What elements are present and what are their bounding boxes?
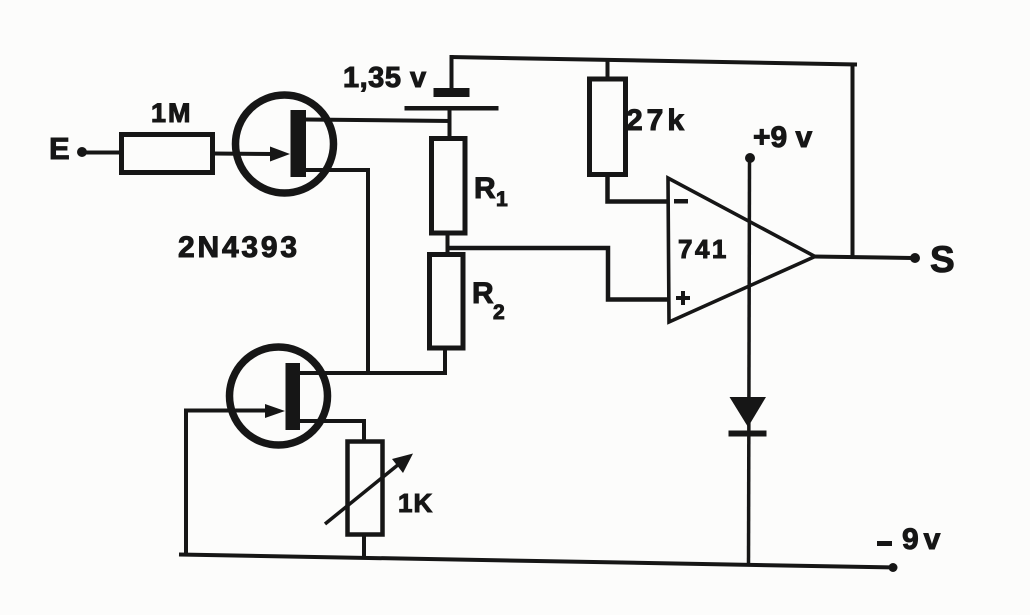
bottom rail wire (-9V) (179, 555, 894, 568)
svg-text:1M: 1M (151, 98, 193, 128)
node S terminal dot (910, 253, 920, 263)
svg-text:1K: 1K (398, 488, 433, 518)
svg-text:741: 741 (678, 234, 729, 264)
resistor R1 (432, 139, 466, 234)
wire 1K to bottom rail (362, 534, 366, 559)
resistor 1M (122, 135, 213, 173)
svg-text:9v: 9v (902, 523, 945, 556)
svg-text:2: 2 (493, 301, 505, 324)
variable resistor 1K body (348, 442, 383, 535)
wire R2 to Q2 drain (300, 347, 445, 373)
svg-text:R: R (472, 277, 494, 310)
bottom rail end dot (889, 563, 898, 572)
op-amp inverting input marker (674, 199, 688, 204)
wire battery minus to R1 (448, 110, 452, 140)
wire +9V through op-amp to diode and bottom rail (749, 160, 750, 566)
op-amp U1 741 body (668, 178, 815, 322)
resistor R2 (430, 255, 464, 349)
wire Q2 source to 1K (300, 421, 364, 443)
svg-text:2N4393: 2N4393 (178, 231, 300, 264)
node E terminal dot (77, 147, 87, 157)
feedback wire output to top rail (851, 63, 855, 258)
transistor Q1 2N4393 (236, 95, 334, 193)
svg-text:+9 v: +9 v (753, 121, 813, 154)
wire Q1 source down to Q2 drain (306, 170, 368, 373)
svg-text:S: S (930, 239, 955, 280)
top rail wire (450, 57, 857, 65)
+9V supply node dot (745, 153, 755, 163)
svg-text:1: 1 (496, 188, 508, 211)
op-amp non-inverting input marker (676, 296, 690, 300)
wire E to 1M (82, 151, 121, 155)
variable resistor 1K arrow (325, 464, 399, 524)
wire 27k to top rail (606, 58, 610, 79)
wire junction to op-amp non-inverting input (448, 248, 670, 300)
svg-text:27k: 27k (626, 104, 688, 137)
wire 1M to Q1 gate (213, 152, 274, 157)
svg-text:E: E (49, 131, 70, 166)
wire op-amp output to S (813, 257, 912, 259)
battery 1.35V bottom plate (405, 106, 499, 111)
wire 27k to op-amp inverting input (608, 174, 670, 202)
wire Q1 drain to battery node (306, 120, 451, 122)
wire battery to top rail (450, 55, 454, 88)
diode D1 cathode bar (729, 431, 767, 437)
resistor 27k (590, 79, 626, 175)
diode D1 anode triangle (730, 397, 767, 427)
transistor Q2 2N4393 (230, 347, 328, 445)
battery 1.35V top plate (434, 88, 470, 97)
svg-text:1,35 v: 1,35 v (343, 62, 427, 94)
label -9v minus sign (877, 541, 892, 546)
svg-text:R: R (474, 172, 496, 205)
wire R1 to R2 junction (446, 233, 450, 255)
wire Q2 gate to bottom rail (186, 411, 268, 557)
